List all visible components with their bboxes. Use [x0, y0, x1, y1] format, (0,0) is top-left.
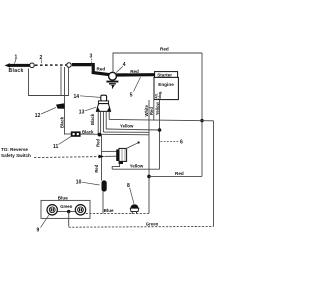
svg-text:Mag.: Mag. — [158, 91, 162, 99]
svg-text:Red: Red — [94, 164, 99, 172]
svg-text:Blue: Blue — [104, 208, 114, 213]
wire: engine yellow lead — [159, 100, 161, 169]
wire: bus from switch pin to right edge (B terminal) — [109, 119, 213, 120]
ground symbol under solenoid — [106, 81, 118, 89]
arrow junction on reverse lead — [99, 155, 105, 159]
svg-text:4: 4 — [123, 62, 126, 68]
callout 2 — [40, 55, 43, 63]
callout 11 — [53, 136, 71, 150]
wire: red top loop — [113, 53, 202, 72]
lamp left — [47, 205, 57, 215]
svg-text:11: 11 — [53, 144, 59, 150]
junction dot black bus at switch pins — [98, 133, 102, 137]
wire: red drop from black bus junction down to lights — [101, 135, 103, 181]
svg-text:9: 9 — [37, 227, 40, 233]
wire: yellow bus from switch — [106, 129, 159, 130]
svg-text:Yellow: Yellow — [155, 101, 160, 115]
wire: yellow line — [112, 168, 159, 170]
svg-text:5: 5 — [130, 93, 133, 99]
callout 5 — [130, 77, 141, 99]
wire: pin C lead to right — [103, 131, 149, 133]
wire: short drop inside loop — [60, 67, 62, 96]
connector ring A of battery cable — [30, 63, 35, 68]
wire: lamp feed drop to green line — [68, 212, 70, 227]
svg-text:Black: Black — [9, 68, 24, 74]
svg-text:Red: Red — [160, 47, 169, 52]
svg-text:Green: Green — [146, 222, 159, 227]
diode module (item 12) on left drop — [56, 103, 65, 109]
wire: right red vertical drop — [201, 53, 203, 176]
toggle switch (item 8) — [130, 204, 139, 213]
wire: black bus through connector 11 — [65, 133, 150, 136]
inline fuse (item 10) — [102, 180, 107, 191]
svg-text:Black: Black — [59, 116, 64, 128]
svg-text:Engine: Engine — [158, 82, 174, 87]
svg-text:Red: Red — [130, 69, 139, 74]
callout 6 (dashed leader to digit) — [161, 140, 184, 146]
junction dot between lamps — [67, 210, 70, 213]
ignition key switch (items 13/14) — [96, 95, 111, 134]
junction dot at red vertical and bus — [200, 119, 203, 122]
text TO: Reverse Safety Switch — [1, 147, 31, 158]
connector 11 (2-pin) — [71, 131, 81, 136]
wire: dashed lead to reverse safety switch — [34, 157, 99, 158]
wire: item 5 bottom hook to yellow line — [112, 164, 119, 169]
solenoid terminal circle (item 4) — [109, 72, 117, 80]
callout 12 — [35, 107, 56, 119]
callout 4 — [116, 62, 126, 73]
engine box — [154, 77, 178, 99]
svg-text:Black: Black — [82, 130, 94, 135]
wire: battery negative lead (thick black with left arrow) — [5, 63, 30, 67]
callout 8 — [127, 183, 134, 204]
junction dot yellow lead and yellow bus — [158, 128, 162, 132]
svg-text:Yellow: Yellow — [120, 124, 134, 129]
wire: right outer loop down — [213, 121, 215, 227]
svg-text:Black: Black — [90, 113, 95, 125]
svg-text:Red: Red — [97, 66, 106, 71]
wire: thick black bus with step down to solenoid — [72, 65, 109, 75]
svg-text:13: 13 — [79, 110, 85, 116]
wire: green bottom line — [69, 225, 214, 228]
wire: engine white lead — [148, 100, 150, 135]
callout 10 — [76, 180, 100, 186]
svg-text:Red: Red — [149, 107, 154, 115]
svg-text:Green: Green — [60, 204, 73, 209]
wire: white/black drop continues to blue line — [148, 135, 150, 214]
interlock switch (item 5) — [116, 141, 140, 164]
svg-text:12: 12 — [35, 113, 41, 119]
svg-text:Yellow: Yellow — [130, 164, 144, 169]
callout 3 — [90, 54, 93, 72]
svg-text:Blue: Blue — [58, 196, 68, 201]
wire: switch top lead to item 5 — [102, 150, 117, 152]
svg-text:Safety Switch: Safety Switch — [1, 153, 31, 158]
connector ring B of battery cable — [67, 63, 72, 68]
junction dot on drop at red return — [147, 175, 151, 179]
lamp right — [75, 205, 85, 215]
starter box — [155, 72, 178, 78]
svg-text:Starter: Starter — [157, 72, 172, 77]
callout 14 — [74, 94, 101, 100]
headlight box — [41, 200, 90, 218]
wire: between lamps — [57, 211, 75, 213]
svg-text:14: 14 — [74, 94, 80, 100]
svg-text:TO: Reverse: TO: Reverse — [1, 147, 28, 152]
wire: blue line from box to drop — [86, 212, 149, 214]
wire: lower loop under battery cable — [29, 68, 69, 96]
wire: middle lead to item 5 — [105, 155, 117, 157]
callout 9 — [37, 215, 50, 234]
callout 13 — [79, 107, 96, 115]
wire: left vertical drop from battery bus to connector 11 — [64, 67, 66, 135]
svg-text:6: 6 — [180, 140, 183, 146]
callout 1 — [15, 55, 18, 64]
wire: engine red lead — [153, 100, 155, 121]
wire: red return line to right vertical — [149, 175, 202, 177]
svg-text:Red: Red — [96, 138, 101, 146]
wire: thick red feed to starter — [116, 73, 155, 77]
wire: dashed battery cable section — [35, 64, 66, 66]
svg-text:10: 10 — [76, 180, 82, 186]
svg-text:Red: Red — [175, 171, 184, 176]
